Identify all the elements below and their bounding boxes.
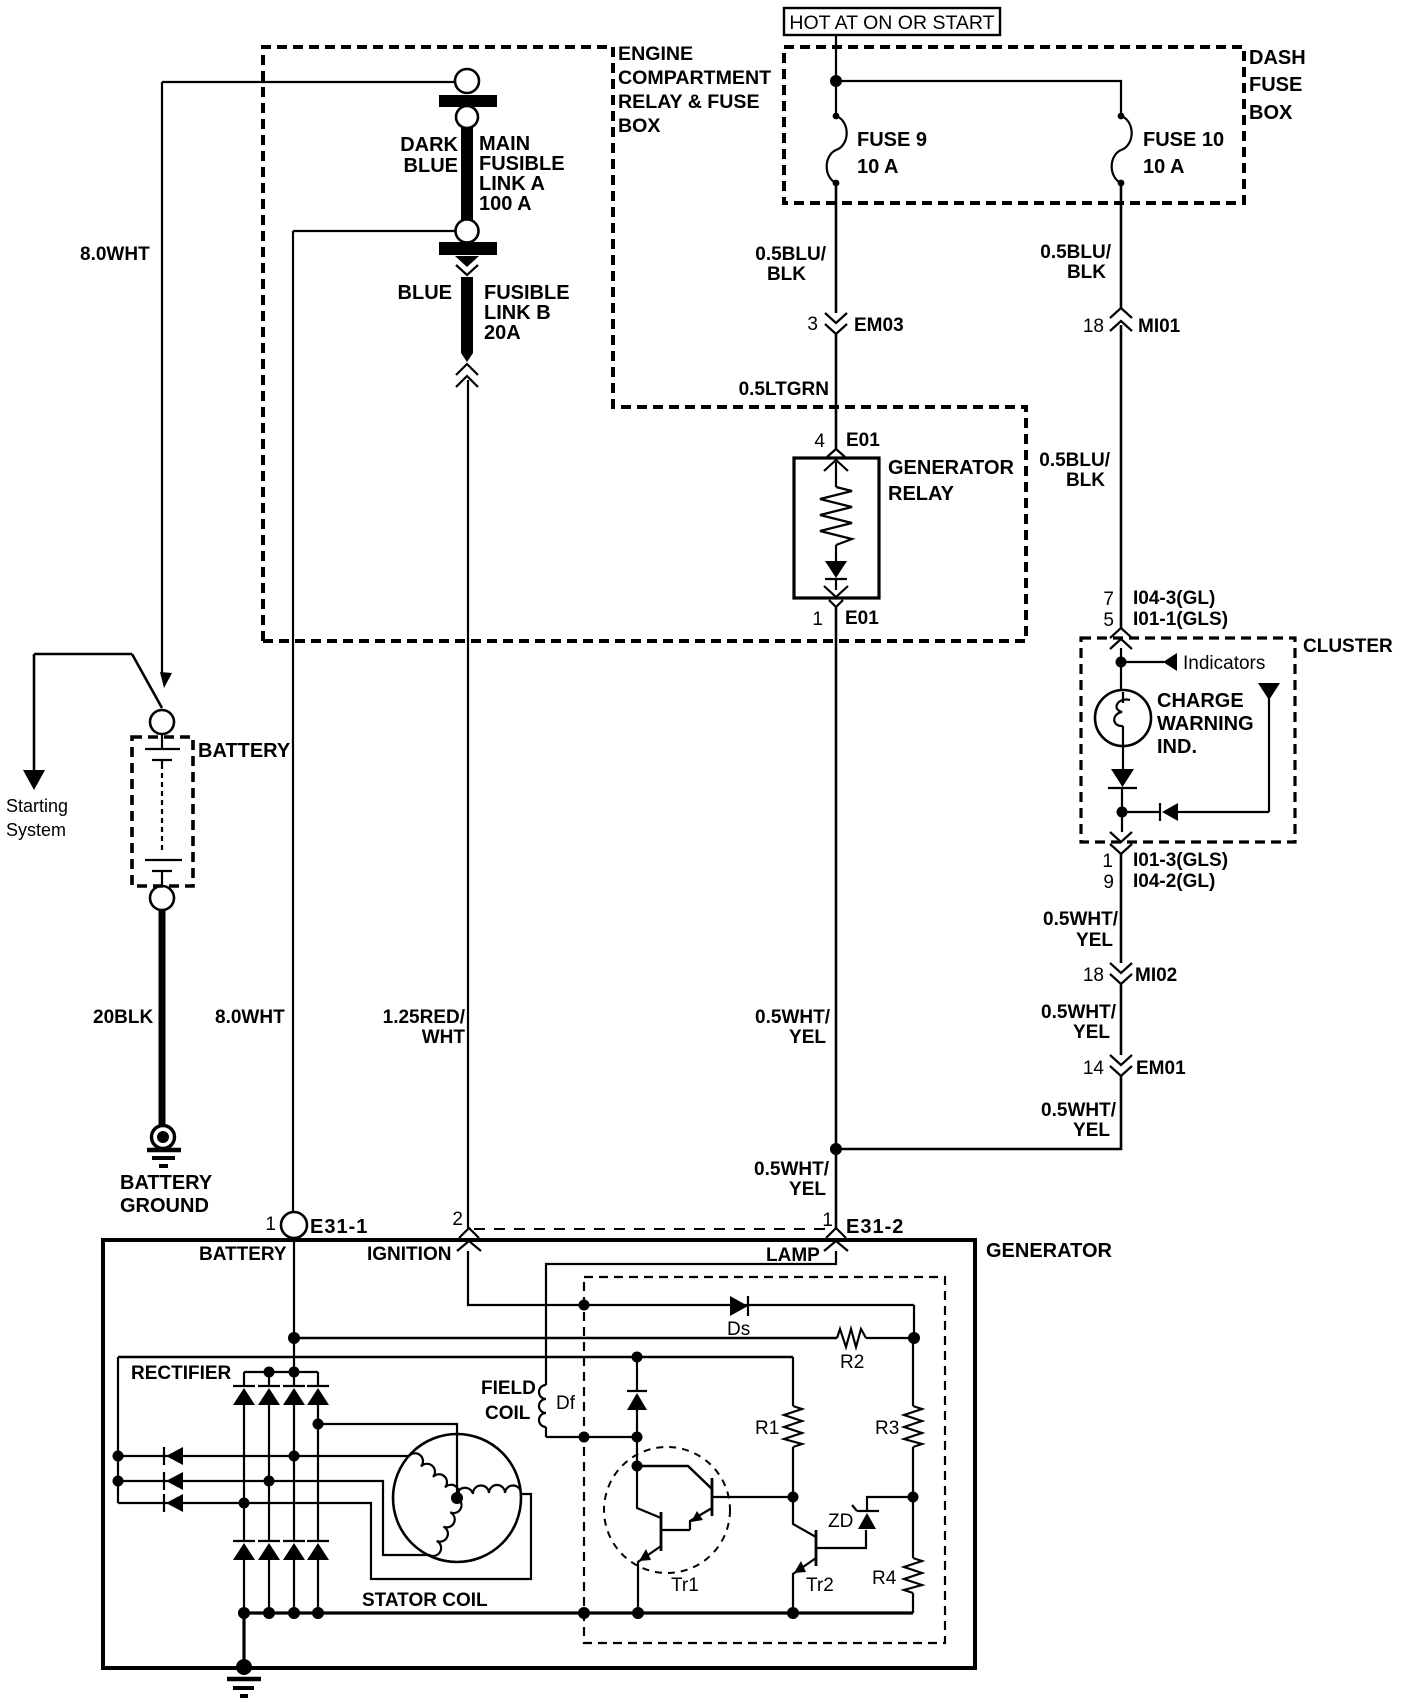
label DARK BLUE (400, 134, 458, 177)
svg-text:R3: R3 (875, 1418, 899, 1439)
relay coil wire top (835, 462, 837, 487)
wire EM03 down to relay pin 4 (835, 334, 838, 449)
svg-text:FUSE 9: FUSE 9 (857, 129, 927, 151)
arrow head top of feedback branch (1258, 683, 1280, 700)
svg-text:LAMP: LAMP (766, 1245, 820, 1266)
svg-text:ENGINE: ENGINE (618, 43, 693, 65)
diode feedback horizontal (1122, 803, 1269, 821)
rectifier vertical legs (244, 1372, 318, 1386)
label 0.5WHT/YEL (1043, 909, 1119, 951)
battery cell symbol (145, 734, 182, 887)
label 0.5WHT/YEL (1041, 1002, 1117, 1043)
label 0.5BLU/BLK right (1040, 242, 1111, 283)
node Tr1 emitter on bus (632, 1607, 644, 1619)
wire diagonal into battery (132, 654, 162, 708)
svg-text:I04-3(GL): I04-3(GL) (1133, 588, 1215, 609)
resistor R2 (837, 1329, 914, 1373)
svg-text:RELAY & FUSE: RELAY & FUSE (618, 91, 760, 113)
svg-text:MAIN: MAIN (479, 133, 530, 155)
svg-text:0.5BLU/: 0.5BLU/ (1039, 450, 1110, 471)
stator center node (451, 1492, 463, 1504)
label BATTERY GROUND (120, 1172, 213, 1217)
svg-text:Df: Df (556, 1393, 576, 1414)
relay pin 4 E01 label (814, 430, 880, 452)
relay pin 4 chevrons (827, 449, 845, 457)
svg-text:BATTERY: BATTERY (120, 1172, 213, 1194)
ground bus (244, 1611, 913, 1614)
svg-text:DASH: DASH (1249, 47, 1306, 69)
transistor Tr1 upper (637, 1466, 793, 1530)
svg-text:0.5WHT/: 0.5WHT/ (755, 1007, 831, 1028)
wire ignition internal drop (468, 1251, 914, 1305)
wire from circle3 left to 8.0WHT drop (293, 230, 455, 232)
cluster exit chevrons (1110, 832, 1132, 842)
voltage regulator dashed box (584, 1277, 945, 1643)
wire fuse9 down to EM03 (835, 183, 838, 313)
svg-text:WARNING: WARNING (1157, 713, 1254, 735)
relay pin 1 chevrons (824, 586, 848, 597)
label CHARGE WARNING IND. (1157, 690, 1254, 758)
svg-text:1: 1 (1102, 851, 1113, 872)
svg-text:0.5LTGRN: 0.5LTGRN (739, 379, 829, 400)
svg-text:MI01: MI01 (1138, 316, 1181, 337)
main fusible link A body (461, 127, 473, 220)
label 5 I01-1(GLS) (1103, 609, 1228, 631)
svg-text:Tr1: Tr1 (671, 1575, 699, 1596)
battery ground symbol (147, 1126, 181, 1167)
svg-text:RECTIFIER: RECTIFIER (131, 1363, 232, 1384)
transistor Tr1 darlington circle (604, 1447, 730, 1573)
connector EM03 pin 3 (807, 313, 903, 336)
svg-text:BLK: BLK (1066, 470, 1105, 491)
svg-text:E01: E01 (846, 430, 880, 451)
svg-text:WHT: WHT (422, 1027, 466, 1048)
svg-text:FUSE 10: FUSE 10 (1143, 129, 1224, 151)
connector E31-1 pin 1 (265, 1212, 368, 1238)
relay diode (825, 545, 847, 590)
label HOT AT ON OR START box (784, 8, 1000, 35)
svg-text:YEL: YEL (789, 1179, 826, 1200)
wire feedback branch vertical (1268, 698, 1270, 812)
svg-text:5: 5 (1103, 610, 1114, 631)
link B bottom taper (461, 353, 473, 362)
label 0.5BLU/BLK left (755, 244, 826, 285)
svg-text:IND.: IND. (1157, 736, 1197, 758)
resistor R4 (872, 1497, 922, 1613)
svg-text:1: 1 (265, 1214, 276, 1235)
svg-text:BATTERY: BATTERY (198, 740, 291, 762)
phase wire 3 (118, 1494, 531, 1579)
rectifier upper diodes (233, 1386, 329, 1405)
phase wire 1 (113, 1447, 410, 1465)
svg-text:YEL: YEL (789, 1027, 826, 1048)
svg-text:7: 7 (1103, 589, 1114, 610)
connector EM01 pin 14 (1083, 1055, 1186, 1079)
node Tr2 emitter on bus (787, 1607, 799, 1619)
node Tr1 collector (632, 1461, 643, 1472)
wire battery lead into rectifier (293, 1338, 295, 1372)
engine compartment relay & fuse box (dashed outline) (263, 47, 1026, 641)
svg-text:BATTERY: BATTERY (199, 1244, 287, 1265)
svg-text:Tr2: Tr2 (806, 1575, 834, 1596)
arrow to starting system (23, 770, 45, 790)
node junction lamp wire (830, 1143, 842, 1155)
generator box (103, 1240, 975, 1668)
stator winding lower-left (430, 1498, 462, 1556)
wire battery internal junction (288, 1332, 300, 1344)
svg-text:CLUSTER: CLUSTER (1303, 636, 1393, 657)
node junction at fuse bus (830, 75, 842, 87)
wire below E31-1 (293, 1238, 295, 1338)
zener diode ZD (828, 1497, 913, 1532)
wire EM01 down and left to junction (836, 1076, 1121, 1149)
wire R2 horizontal (294, 1337, 837, 1340)
node R1 / Tr2 collector (788, 1492, 799, 1503)
svg-text:FUSIBLE: FUSIBLE (484, 282, 570, 304)
wire relay pin1 down to E31-2 (835, 607, 838, 1228)
svg-text:E01: E01 (845, 608, 879, 629)
rectifier top bus (244, 1371, 318, 1373)
terminal circle top of main fusible link (455, 69, 479, 93)
svg-text:R2: R2 (840, 1352, 864, 1373)
cluster dashed box (1081, 638, 1295, 842)
node R2 / Ds junction (908, 1332, 920, 1344)
terminal circle 2 (456, 106, 478, 128)
svg-text:EM01: EM01 (1136, 1058, 1186, 1079)
svg-text:BLUE: BLUE (404, 155, 458, 177)
rectifier mid verticals (244, 1405, 318, 1541)
fuse F10 (1112, 113, 1224, 187)
label Starting System (6, 796, 68, 840)
stator winding right (457, 1485, 521, 1498)
label FUSIBLE LINK B 20A (484, 282, 570, 344)
label 9 I04-2(GL) (1103, 871, 1215, 893)
rectifier lower diodes (233, 1541, 329, 1560)
label 0.5WHT/YEL (1041, 1100, 1117, 1141)
field coil Df (481, 1378, 576, 1437)
label 0.5WHT/YEL below junction (754, 1159, 830, 1200)
label 0.5BLU/BLK mid right wire (1039, 450, 1110, 491)
svg-text:BLUE: BLUE (398, 282, 452, 304)
label 1 I01-3(GLS) (1102, 850, 1228, 872)
wire 8.0WHT vertical left (161, 82, 163, 676)
wire 20BLK thick battery ground lead (159, 910, 166, 1126)
svg-text:BOX: BOX (618, 115, 660, 137)
svg-text:Starting: Starting (6, 796, 68, 816)
svg-text:ZD: ZD (828, 1511, 853, 1532)
stator winding upper-left (409, 1453, 459, 1498)
fuse F9 (827, 113, 927, 187)
svg-text:LINK B: LINK B (484, 302, 551, 324)
svg-text:BLK: BLK (1067, 262, 1106, 283)
wire ground drop (242, 1613, 245, 1667)
arrow indicators (1163, 653, 1177, 671)
svg-text:I01-1(GLS): I01-1(GLS) (1133, 609, 1228, 630)
svg-text:HOT AT ON OR START: HOT AT ON OR START (789, 12, 994, 34)
fusible link bar 1 (439, 95, 497, 107)
diode Ds (727, 1296, 750, 1340)
label DASH FUSE BOX (1249, 47, 1306, 124)
battery dashed box (132, 737, 193, 886)
terminal circle 3 (456, 220, 479, 243)
svg-text:9: 9 (1103, 872, 1114, 893)
svg-text:0.5WHT/: 0.5WHT/ (1043, 909, 1119, 930)
node lower cluster junction (1117, 807, 1128, 818)
wire Tr1 collector node drop (636, 1437, 638, 1466)
link B top arrow (solid V) (455, 256, 479, 267)
svg-text:EM03: EM03 (854, 315, 904, 336)
relay pin 1 E01 label (812, 608, 879, 630)
wire MI01 down to cluster (1120, 325, 1123, 628)
svg-text:8.0WHT: 8.0WHT (80, 244, 150, 265)
svg-text:3: 3 (807, 314, 818, 335)
svg-text:1.25RED/: 1.25RED/ (383, 1007, 466, 1028)
lamp charge warning indicator (1095, 690, 1151, 746)
svg-text:System: System (6, 820, 66, 840)
arrow end of 8.0WHT wire (160, 672, 172, 688)
svg-text:GENERATOR: GENERATOR (986, 1240, 1112, 1262)
node bus crossing dashed edge (578, 1607, 590, 1619)
E31-2 chevrons (826, 1228, 846, 1238)
wire cluster to MI02 (1120, 854, 1123, 963)
transistor Tr1 lower (637, 1466, 690, 1613)
node R3 / ZD junction (908, 1492, 919, 1503)
svg-text:R4: R4 (872, 1568, 897, 1589)
connector MI01 pin 18 (1083, 308, 1181, 337)
wire branch to starting system (34, 653, 132, 656)
svg-text:GENERATOR: GENERATOR (888, 457, 1014, 479)
node diode-trio to R1 wire (632, 1352, 643, 1363)
wire into cluster (1120, 648, 1122, 691)
label GENERATOR RELAY (888, 457, 1014, 505)
wire Ds corner down to R2 node (913, 1305, 915, 1338)
svg-text:2: 2 (452, 1209, 463, 1230)
svg-text:FIELD: FIELD (481, 1378, 536, 1399)
rectifier lower verticals to ground bus (244, 1560, 318, 1613)
cluster entry chevrons (1110, 628, 1132, 638)
label ENGINE COMPARTMENT RELAY & FUSE BOX (618, 43, 771, 137)
svg-text:YEL: YEL (1073, 1022, 1110, 1043)
svg-text:Indicators: Indicators (1183, 653, 1265, 674)
svg-text:8.0WHT: 8.0WHT (215, 1007, 285, 1028)
svg-text:STATOR COIL: STATOR COIL (362, 1590, 488, 1611)
wire lamp down (1122, 744, 1124, 769)
dashed connector line E31 (474, 1228, 828, 1230)
stator coil circle (393, 1434, 521, 1562)
generator case ground symbol (227, 1679, 261, 1696)
svg-text:E31-1: E31-1 (310, 1216, 368, 1238)
svg-text:LINK A: LINK A (479, 173, 545, 195)
node ground at case (236, 1659, 252, 1675)
wire 1.25RED/WHT vertical down to generator (467, 380, 469, 1228)
wire field coil to Tr1 (546, 1436, 637, 1438)
ignition chevrons (459, 1228, 479, 1238)
wire to indicators (1121, 661, 1164, 663)
resistor R3 (875, 1338, 922, 1497)
label 0.5WHT/YEL left wire (755, 1007, 831, 1048)
wire lamp internal to field coil (546, 1251, 836, 1385)
svg-text:DARK: DARK (400, 134, 458, 156)
svg-text:14: 14 (1083, 1058, 1105, 1079)
node indicators junction (1116, 657, 1127, 668)
generator relay box (794, 458, 879, 598)
fusible link B body (461, 277, 473, 353)
svg-text:COIL: COIL (485, 1403, 531, 1424)
connector E31-2 pin 1 (822, 1210, 904, 1238)
wire from HOT box down (835, 35, 837, 113)
resistor R1 (755, 1357, 802, 1497)
svg-text:COMPARTMENT: COMPARTMENT (618, 67, 771, 89)
svg-text:RELAY: RELAY (888, 483, 955, 505)
svg-text:20BLK: 20BLK (93, 1007, 153, 1028)
svg-text:4: 4 (814, 431, 825, 452)
transistor Tr2 (793, 1497, 866, 1613)
svg-text:18: 18 (1083, 965, 1104, 986)
connector chevrons below link B (456, 364, 478, 387)
wire fuse10 down to MI01 (1120, 183, 1123, 308)
svg-text:20A: 20A (484, 322, 521, 344)
wire bus to fuse 10 (836, 81, 1121, 113)
wire 8.0WHT vertical (to E31-1) (292, 231, 294, 1212)
svg-text:1: 1 (822, 1210, 833, 1231)
svg-text:0.5WHT/: 0.5WHT/ (1041, 1002, 1117, 1023)
relay coil resistor (820, 487, 852, 545)
battery bottom terminal circle (150, 886, 174, 910)
svg-text:0.5BLU/: 0.5BLU/ (1040, 242, 1111, 263)
svg-text:0.5WHT/: 0.5WHT/ (754, 1159, 830, 1180)
wire starting system drop (33, 654, 36, 772)
svg-text:100 A: 100 A (479, 193, 532, 215)
node dot on dashed edge (Ds wire) (579, 1300, 590, 1311)
svg-text:BOX: BOX (1249, 102, 1293, 124)
svg-text:BLK: BLK (767, 264, 806, 285)
svg-text:I04-2(GL): I04-2(GL) (1133, 871, 1215, 892)
svg-text:10 A: 10 A (857, 156, 899, 178)
svg-text:0.5BLU/: 0.5BLU/ (755, 244, 826, 265)
node stator neutral tap (313, 1419, 324, 1430)
dash fuse box (dashed) (784, 47, 1244, 203)
svg-text:R1: R1 (755, 1418, 779, 1439)
wire rectifier left leg (117, 1357, 119, 1503)
svg-text:1: 1 (812, 609, 823, 630)
svg-text:GROUND: GROUND (120, 1195, 209, 1217)
diode below lamp (1108, 769, 1137, 832)
svg-text:FUSE: FUSE (1249, 74, 1302, 96)
label 7 I04-3(GL) (1103, 588, 1215, 610)
label MAIN FUSIBLE LINK A 100 A (479, 133, 565, 215)
svg-text:E31-2: E31-2 (846, 1216, 904, 1238)
wire MI02 to EM01 (1120, 984, 1123, 1055)
svg-text:0.5WHT/: 0.5WHT/ (1041, 1100, 1117, 1121)
svg-text:IGNITION: IGNITION (367, 1244, 451, 1265)
wire neutral to stator center (318, 1424, 457, 1498)
svg-text:YEL: YEL (1073, 1120, 1110, 1141)
label 1.25RED/WHT (383, 1007, 466, 1048)
svg-text:18: 18 (1083, 316, 1104, 337)
wire top-left horizontal to link A (162, 81, 455, 83)
connector MI02 pin 18 (1083, 963, 1177, 986)
svg-text:FUSIBLE: FUSIBLE (479, 153, 565, 175)
svg-text:YEL: YEL (1076, 930, 1113, 951)
fusible link bar 2 (439, 242, 497, 255)
wire diode-trio feed (rectifier to R1) (118, 1356, 793, 1359)
svg-text:10 A: 10 A (1143, 156, 1185, 178)
svg-text:I01-3(GLS): I01-3(GLS) (1133, 850, 1228, 871)
diode Df flyback on field line (627, 1357, 647, 1437)
battery top terminal circle (150, 710, 174, 734)
svg-text:CHARGE: CHARGE (1157, 690, 1244, 712)
phase wire 2 (113, 1472, 431, 1555)
svg-text:MI02: MI02 (1135, 965, 1177, 986)
link B top chevron (456, 265, 478, 275)
